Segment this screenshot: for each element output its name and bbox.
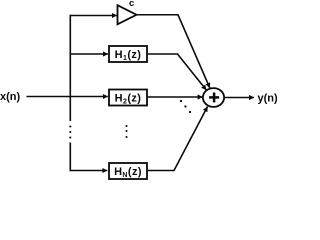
block H1(z) bbox=[109, 46, 147, 62]
op-amp gain c triangle bbox=[118, 5, 137, 24]
wire amp output to adder bbox=[137, 15, 210, 88]
wire branch vertical lower segment bbox=[69, 143, 71, 172]
svg-text:x(n): x(n) bbox=[0, 91, 21, 103]
svg-text:y(n): y(n) bbox=[258, 93, 278, 105]
ellipsis dots between H2 and HN bbox=[125, 125, 127, 127]
svg-text:H2(z): H2(z) bbox=[115, 93, 142, 106]
svg-text:HN(z): HN(z) bbox=[114, 166, 142, 179]
ellipsis dots near adder bbox=[180, 100, 182, 102]
svg-text:H1(z): H1(z) bbox=[115, 49, 142, 62]
wire HN output to adder bbox=[148, 107, 208, 171]
svg-text:c: c bbox=[129, 0, 134, 9]
wire H1 output to adder bbox=[148, 54, 207, 90]
adder summing junction bbox=[203, 88, 224, 107]
wire top branch to amplifier bbox=[70, 15, 117, 17]
wire branch vertical upper segment bbox=[69, 15, 71, 121]
block HN(z) bbox=[109, 163, 147, 179]
ellipsis dots on branch line bbox=[69, 125, 71, 127]
wire adder output bbox=[224, 97, 254, 99]
wire branch to H1 bbox=[70, 53, 108, 55]
block H2(z) bbox=[109, 90, 147, 106]
wire H2 output to adder bbox=[148, 96, 203, 98]
wire input main horizontal to H2 bbox=[27, 96, 108, 98]
wire branch to HN bbox=[70, 170, 108, 172]
